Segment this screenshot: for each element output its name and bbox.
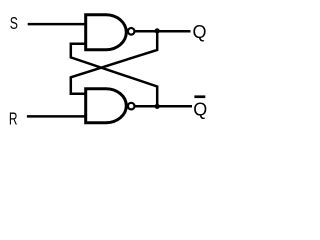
wire R input: [27, 115, 86, 118]
svg-text:Q: Q: [193, 99, 207, 119]
svg-text:Q: Q: [193, 22, 207, 42]
overbar of Q-bar: [194, 95, 205, 98]
junction node Q dot: [155, 28, 160, 33]
NAND gate U2 output bubble: [128, 103, 135, 110]
wire feedback Q-bar node to U1 lower input: [71, 44, 157, 106]
wire U1 output to Q: [135, 30, 190, 33]
NAND gate U1 output bubble: [128, 28, 135, 35]
NAND gate U1 body: [86, 15, 127, 50]
svg-text:R: R: [9, 108, 18, 128]
svg-text:S: S: [10, 13, 18, 33]
NAND gate U2 body: [86, 89, 127, 123]
wire U2 output to Q-bar: [135, 105, 192, 108]
wire feedback Q node to U2 upper input: [71, 31, 157, 94]
junction node Q-bar dot: [155, 104, 160, 109]
wire S input: [28, 23, 86, 26]
